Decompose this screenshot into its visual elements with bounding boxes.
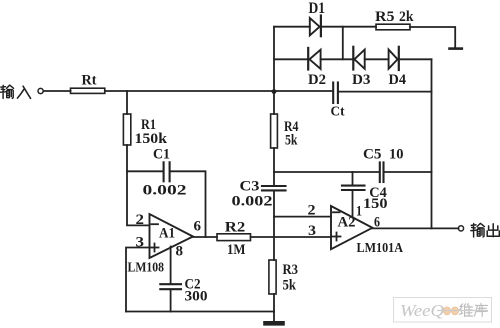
wire A1 pin3 loop to bottom rail [126,248,150,312]
wire D1 row left [274,26,310,28]
svg-text:R2: R2 [225,220,246,236]
svg-text:0.002: 0.002 [143,183,187,199]
capacitor C1 [163,162,165,181]
wire R1 top stub [126,91,128,114]
wire A2 output to terminal [372,227,458,229]
wire R2 to A2 pin3 [251,236,332,238]
svg-text:C1: C1 [153,146,170,162]
svg-text:R3: R3 [283,262,299,278]
ground stub [273,312,275,322]
输出 output label (drawn glyphs) [471,223,500,237]
A1 plus sign [151,247,159,249]
wire R5 to top-right ground [410,27,455,48]
svg-text:2k: 2k [399,9,414,25]
ground [266,321,283,326]
resistor R4 [271,114,278,148]
svg-text:1: 1 [356,204,362,220]
resistor R3 [269,260,276,294]
wire right vertical [431,59,433,228]
svg-text:LM101A: LM101A [357,241,404,256]
svg-text:D4: D4 [389,72,407,88]
svg-text:5k: 5k [285,133,298,149]
capacitor Ct [332,83,334,104]
svg-text:D3: D3 [352,72,371,88]
input terminal [38,88,43,93]
wire C4 top tap [352,172,354,185]
wire pin8 to C2 [170,247,172,284]
wire A2 pin2 [274,216,331,218]
svg-text:1M: 1M [227,242,246,258]
wire C1 right to A1 output [171,171,206,237]
capacitor C2 [160,283,181,285]
svg-text:2: 2 [308,203,316,219]
diode D1 [310,18,320,35]
svg-text:10: 10 [389,147,404,163]
svg-text:300: 300 [185,289,208,305]
bottom rail wire [126,311,274,313]
wire C4 bottom to A2 pin1 [352,190,354,217]
node junction dot main/central [272,89,277,94]
svg-text:A2: A2 [338,215,356,231]
capacitor C5 [379,162,381,182]
svg-text:150: 150 [363,196,388,212]
A2 plus sign [333,236,341,238]
svg-text:3: 3 [308,223,316,239]
wire C1 left [127,170,163,172]
svg-text:150k: 150k [135,131,169,147]
svg-text:2: 2 [136,212,145,228]
diode D4 [389,50,398,69]
svg-text:0.002: 0.002 [232,194,273,210]
wire D1 to R5 [321,26,376,28]
svg-text:A1: A1 [159,225,175,241]
svg-text:8: 8 [176,244,184,260]
wire C5 row left (A2 feedback node) [274,171,379,173]
wire D2 row left [274,58,308,60]
svg-text:6: 6 [194,219,202,235]
diode D3 [352,47,354,70]
wire tee D1 row down to D2 row [342,27,344,60]
A2 minus sign [333,211,340,213]
diode D2 [307,48,309,70]
svg-text:Ct: Ct [331,105,345,120]
wire D3 to D4 [365,58,389,60]
wire R1 bottom to A1 pin2 corner [127,145,150,225]
capacitor C4 [342,185,365,187]
wire D2 to D3 [321,58,354,60]
ground top right [450,47,462,50]
wire C5 right to right vertical [385,171,432,173]
wire central vertical top (diode rows to main) [273,27,275,114]
resistor R5 [376,24,410,30]
A1 minus sign [152,223,159,225]
resistor Rt [71,88,105,93]
wire A1 output to R2 [193,236,217,238]
svg-text:Rt: Rt [82,73,97,89]
wire C2 bottom to rail [170,290,172,312]
wire main horizontal left segment (Rt to Ct) [105,90,333,92]
resistor R1 [123,114,130,145]
wire R3 bottom to rail [273,294,275,312]
wire input to Rt [43,90,70,92]
svg-text:5k: 5k [283,278,297,294]
svg-text:C5: C5 [363,147,382,163]
输入 input label (drawn glyphs) [0,85,30,98]
output terminal [458,226,463,231]
svg-text:D2: D2 [308,72,326,88]
op-amp A2 [331,206,372,249]
watermark WeeQoo 维库 [394,298,492,323]
svg-text:D1: D1 [309,0,326,17]
wire main horizontal right segment (Ct to right vertical) [339,91,432,93]
wire R4 bottom to C3 [273,148,275,186]
svg-text:R5: R5 [375,9,395,25]
wire C3 bottom to R3 [273,191,275,260]
op-amp A1 [150,214,194,258]
wire D4 to right vertical [399,58,432,60]
svg-text:LM108: LM108 [128,261,165,276]
capacitor C3 [262,185,286,187]
svg-text:C3: C3 [240,179,260,195]
resistor R2 [217,234,251,241]
